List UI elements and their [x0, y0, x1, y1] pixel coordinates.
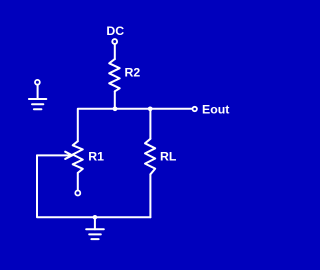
junction RL/bus: [148, 106, 153, 111]
resistor R2: [109, 59, 120, 91]
wire R1 bottom to open terminal: [77, 173, 79, 190]
terminal DC (open circle): [112, 39, 117, 44]
terminal Eout (open circle): [193, 107, 197, 111]
wire RL bottom to bottom bus: [149, 174, 151, 217]
wire RL branch down: [149, 109, 151, 139]
svg-text:RL: RL: [160, 150, 177, 164]
svg-text:R2: R2: [125, 66, 141, 80]
svg-text:R1: R1: [88, 150, 104, 164]
junction R2/bus: [113, 106, 118, 111]
ground (bottom): [86, 217, 104, 239]
potentiometer R1: [73, 141, 83, 173]
wire bottom bus and wiper return: [37, 155, 150, 217]
wire top bus with corner to R1 branch: [78, 109, 192, 141]
wiper arrow of R1: [37, 154, 70, 156]
ground (left, floating with open terminal): [29, 80, 46, 109]
svg-text:DC: DC: [106, 24, 124, 38]
resistor RL: [145, 139, 155, 175]
svg-text:Eout: Eout: [202, 103, 229, 117]
junction ground/bottom bus: [93, 215, 98, 220]
terminal R1 bottom (open circle): [75, 191, 80, 196]
wire DC terminal to R2: [114, 44, 116, 59]
wire R2 bottom to bus: [114, 91, 116, 109]
